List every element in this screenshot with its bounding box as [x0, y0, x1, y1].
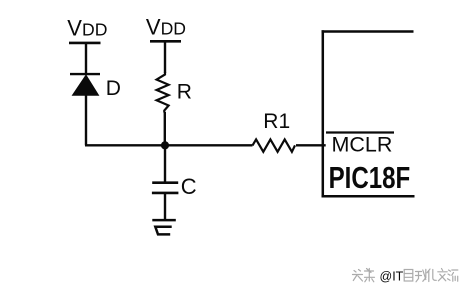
wire capacitor C to ground: [164, 194, 166, 220]
pin MCLR overline: [326, 131, 394, 133]
svg-text:R1: R1: [263, 110, 290, 133]
resistor R1: [253, 139, 296, 151]
wire VDD1 to diode cathode: [85, 43, 87, 74]
power VDD1: [67, 16, 107, 43]
node A junction dot: [161, 141, 169, 149]
svg-text:PIC18F: PIC18F: [329, 160, 411, 194]
power VDD2: [146, 15, 186, 42]
ground: [152, 220, 176, 234]
svg-text:R: R: [177, 81, 192, 104]
watermark: [353, 269, 458, 284]
svg-text:D: D: [106, 77, 121, 100]
wire diode anode to node A: [85, 95, 87, 145]
svg-text:VDD: VDD: [146, 15, 186, 40]
wire VDD2 to resistor R: [164, 41, 166, 73]
svg-text:VDD: VDD: [67, 16, 107, 41]
diode D: [70, 74, 100, 95]
wire resistor R to node A: [164, 112, 166, 145]
IC U1 PIC18F outline: [322, 30, 415, 197]
wire R1 to MCLR pin: [296, 144, 326, 146]
svg-text:C: C: [181, 174, 197, 199]
svg-text:MCLR: MCLR: [332, 133, 393, 157]
capacitor C: [152, 183, 179, 193]
resistor R: [157, 72, 169, 113]
svg-text:@IT: @IT: [380, 270, 404, 284]
wire node A horizontal main: [85, 144, 253, 146]
wire node A to capacitor C: [164, 145, 166, 181]
